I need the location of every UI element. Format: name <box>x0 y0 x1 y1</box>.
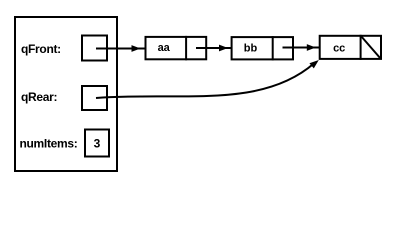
arrow aa to bb : shaft <box>196 47 232 49</box>
curved arrow qRear to cc : shaft <box>96 63 314 98</box>
svg-text:numItems:: numItems: <box>20 137 78 151</box>
node aa divider <box>185 36 187 60</box>
qFront pointer box <box>82 36 107 61</box>
node bb divider <box>272 36 274 60</box>
arrow qFront to aa : shaft <box>96 48 145 50</box>
node bb outer box <box>232 37 293 59</box>
svg-text:cc: cc <box>333 42 345 54</box>
curved arrow qRear to cc : head <box>309 60 318 68</box>
queue object rectangle <box>15 17 117 171</box>
svg-text:qRear:: qRear: <box>21 90 57 104</box>
numItems value box <box>85 130 109 157</box>
arrow aa to bb : head <box>219 45 228 52</box>
svg-text:3: 3 <box>94 137 101 151</box>
arrow qFront to aa : head <box>132 45 141 52</box>
qRear pointer box <box>82 86 107 110</box>
node cc outer box <box>320 36 381 59</box>
arrow bb to cc : head <box>307 44 316 51</box>
svg-text:bb: bb <box>244 43 258 55</box>
arrow bb to cc : shaft <box>283 47 320 49</box>
node cc divider <box>360 35 362 60</box>
svg-text:aa: aa <box>158 42 171 54</box>
node aa outer box <box>146 37 207 59</box>
node cc null diagonal <box>362 37 381 59</box>
svg-text:qFront:: qFront: <box>21 42 61 56</box>
